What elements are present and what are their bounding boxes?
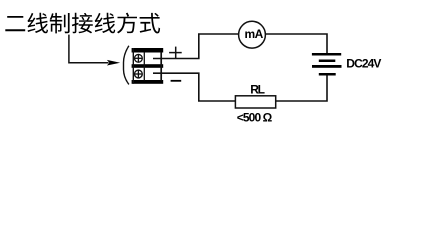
plus label: [169, 47, 182, 59]
svg-text:DC24V: DC24V: [346, 57, 381, 71]
wire: top terminal to meter: [153, 34, 239, 59]
wire: meter to battery top: [266, 34, 327, 53]
svg-text:mA: mA: [245, 27, 264, 41]
ammeter U1 circle: [239, 21, 266, 48]
screw top: [135, 54, 143, 62]
leader arrowhead: [107, 60, 120, 66]
terminal right edge: [160, 52, 162, 81]
title 二线制接线方式: [5, 13, 160, 34]
bracket (: [124, 46, 129, 85]
terminal block body: [132, 48, 164, 84]
terminal middle divider: [132, 64, 164, 68]
terminal top bar: [132, 48, 164, 53]
screw bottom: [135, 70, 143, 78]
battery plate 3 long: [312, 65, 342, 68]
battery BT1 plate 1 long: [312, 53, 341, 56]
screw column separator: [143, 52, 145, 81]
wire: resistor to bottom terminal: [153, 73, 236, 101]
terminal bottom bar: [132, 80, 164, 84]
battery plate 2 short: [319, 60, 336, 63]
leader line from title: [69, 35, 109, 63]
battery plate 4 short: [319, 73, 336, 76]
svg-text:<500 Ω: <500 Ω: [237, 110, 273, 124]
wire: battery bottom to resistor: [276, 76, 327, 102]
minus label: [171, 80, 182, 82]
resistor RL body: [235, 96, 275, 108]
svg-text:RL: RL: [250, 83, 264, 97]
terminal left edge: [132, 48, 134, 84]
